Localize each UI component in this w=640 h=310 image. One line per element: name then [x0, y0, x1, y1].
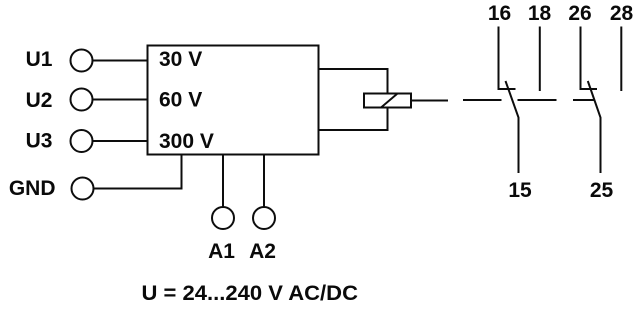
label U3	[26, 129, 53, 152]
caption supply voltage	[142, 281, 359, 305]
svg-text:GND: GND	[9, 177, 56, 200]
pin 18 fixed contact	[539, 27, 541, 92]
svg-text:28: 28	[610, 2, 634, 25]
label A1	[208, 240, 235, 263]
wire coil loop bottom	[319, 108, 388, 131]
pin 28 fixed contact	[620, 27, 622, 92]
wire U1 to box	[93, 60, 149, 62]
label GND	[9, 177, 56, 200]
contact mover 15	[506, 81, 519, 173]
wire A1	[222, 155, 224, 208]
svg-text:U1: U1	[26, 48, 53, 71]
svg-text:U2: U2	[26, 89, 53, 112]
value label 300 V	[159, 130, 214, 153]
terminal GND	[72, 178, 94, 200]
wire coil loop top	[319, 69, 388, 94]
svg-text:16: 16	[488, 2, 511, 25]
wire A2	[263, 155, 265, 208]
label pin 26	[568, 2, 591, 25]
svg-text:15: 15	[508, 179, 532, 202]
contact mover 25	[588, 81, 601, 173]
value label 30 V	[159, 48, 202, 71]
label pin 16	[488, 2, 511, 25]
wire coil lead	[411, 100, 448, 102]
label U1	[26, 48, 53, 71]
relay coil K1	[364, 94, 411, 108]
svg-text:A2: A2	[249, 240, 276, 263]
label pin 15	[508, 179, 532, 202]
svg-text:18: 18	[528, 2, 552, 25]
terminal U2	[71, 89, 93, 111]
terminal A1	[212, 207, 234, 229]
terminal A2	[253, 207, 275, 229]
wire U2 to box	[93, 99, 149, 101]
label pin 28	[610, 2, 634, 25]
label A2	[249, 240, 276, 263]
svg-text:26: 26	[568, 2, 591, 25]
terminal U3	[71, 130, 93, 152]
label pin 18	[528, 2, 552, 25]
svg-text:300 V: 300 V	[159, 130, 214, 153]
wire GND to box bottom	[94, 155, 182, 189]
svg-text:25: 25	[590, 179, 614, 202]
label U2	[26, 89, 53, 112]
wire U3 to box	[93, 140, 149, 142]
svg-text:U = 24...240 V AC/DC: U = 24...240 V AC/DC	[142, 281, 359, 305]
terminal U1	[71, 50, 93, 72]
svg-text:30 V: 30 V	[159, 48, 202, 71]
mechanical linkage dashed line	[463, 99, 594, 101]
label pin 25	[590, 179, 614, 202]
pin 26 fixed contact	[581, 27, 598, 90]
svg-text:A1: A1	[208, 240, 235, 263]
svg-text:U3: U3	[26, 129, 53, 152]
pin 16 fixed contact	[499, 27, 516, 90]
power supply box	[148, 46, 319, 155]
value label 60 V	[159, 89, 202, 112]
svg-text:60 V: 60 V	[159, 89, 202, 112]
